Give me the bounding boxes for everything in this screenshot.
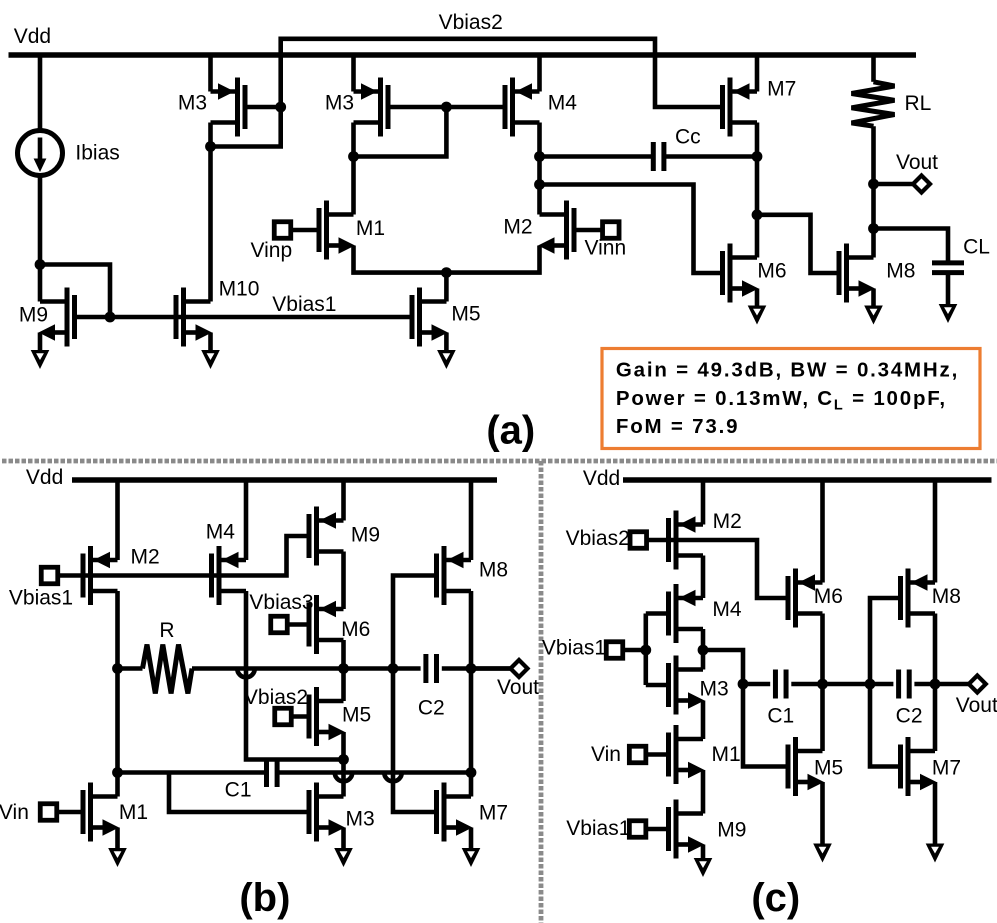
ground under M10 (201, 350, 220, 369)
ground under M3 (b) (334, 848, 353, 867)
wire: Vinp lead (291, 228, 319, 233)
wire: M7 drain / M6 drain column (a) (755, 123, 760, 258)
svg-text:M3: M3 (178, 92, 207, 115)
port Vbias1 (b) (41, 567, 58, 584)
transistor M5 (b) (309, 687, 345, 746)
transistor M4 (b) (212, 546, 247, 605)
svg-text:M4: M4 (548, 92, 577, 115)
transistor M6 (c) (788, 569, 823, 628)
capacitor C2 (c) (896, 670, 901, 699)
ground under CL (939, 304, 958, 323)
resistor R (b) (143, 645, 193, 694)
svg-text:M4: M4 (712, 598, 741, 621)
transistor M2 (c) (669, 511, 704, 570)
svg-text:Vbias1: Vbias1 (542, 637, 606, 660)
svg-text:M3: M3 (325, 92, 354, 115)
transistor M10 (a) (176, 288, 212, 347)
ground under M1 (b) (108, 848, 127, 867)
capacitor C2 (b) (423, 654, 428, 683)
transistor M8 (c) (901, 569, 936, 628)
svg-text:M8: M8 (886, 260, 915, 283)
svg-text:Vinn: Vinn (584, 236, 626, 259)
port Vinp (274, 222, 291, 239)
wire: C1 row (b) (118, 770, 472, 775)
svg-text:Ibias: Ibias (75, 141, 119, 164)
wire: Vinn lead (574, 228, 603, 233)
port Vinn (603, 222, 620, 239)
wire: M2 drain / M1 drain column (b) (115, 591, 120, 797)
transistor M9 (c) (669, 800, 705, 859)
svg-text:M7: M7 (479, 802, 508, 825)
port Vin (b) (40, 804, 57, 821)
svg-text:Vdd: Vdd (583, 467, 620, 490)
svg-text:M5: M5 (342, 704, 371, 727)
transistor M7 (b) (437, 783, 473, 842)
wire: Vbias1 net and M4/M3 gates (c) (623, 614, 669, 686)
transistor M4 (c) (669, 584, 704, 643)
transistor M7 (a) (723, 78, 758, 137)
ground under M9 (c) (694, 858, 713, 877)
svg-text:Vdd: Vdd (26, 466, 63, 489)
transistor M3 second (a) (354, 78, 389, 137)
wire: Vdd rail (b) (72, 477, 497, 483)
svg-text:Vbias1: Vbias1 (272, 293, 336, 316)
wire: Vdd rail (c) (623, 477, 992, 483)
svg-text:M1: M1 (119, 801, 148, 824)
wire: CL branch (874, 229, 949, 305)
wire: M8 and M7 gate net (b) (393, 576, 437, 813)
wire: M4 drain to M5 source node (b) (246, 591, 344, 760)
wire: M3 diode loop / M10 drain column (a) (211, 107, 281, 302)
svg-text:R: R (159, 619, 174, 642)
svg-text:Vbias2: Vbias2 (244, 686, 308, 709)
svg-text:C2: C2 (418, 697, 445, 720)
wire: M6 drain / M5 drain column (b) (341, 640, 346, 701)
svg-text:(a): (a) (486, 409, 535, 453)
svg-text:M1: M1 (356, 217, 385, 240)
svg-text:Vbias3: Vbias3 (249, 591, 313, 614)
svg-text:M5: M5 (814, 757, 843, 780)
transistor M3 (b) (309, 783, 345, 842)
wire: ground stubs (b) (118, 828, 472, 849)
transistor M5 (a) (412, 288, 448, 347)
ground under M5 (c) (813, 844, 832, 863)
wire: M9 drain to M6 source (b) (341, 552, 346, 610)
wire: M5 source to ground (444, 333, 449, 351)
svg-text:M7: M7 (767, 78, 796, 101)
port Vout (b) (511, 660, 528, 677)
wire: M3/M1 drain column and mirror gate row (a) (354, 107, 506, 215)
svg-text:Vbias2: Vbias2 (566, 527, 630, 550)
port Vbias2 (b) (292, 714, 310, 719)
junction dots (b) (112, 663, 476, 778)
transistor M8 (a) (839, 244, 875, 303)
wire: C row (c) (743, 682, 969, 687)
svg-text:C1: C1 (767, 705, 794, 728)
port Vbias3 (b) (288, 622, 310, 627)
transistor M6 (a) (723, 244, 759, 303)
svg-text:M6: M6 (814, 585, 843, 608)
wire: Vdd drops (c) (703, 480, 935, 583)
svg-text:FoM = 73.9: FoM = 73.9 (616, 415, 739, 438)
svg-text:M2: M2 (503, 216, 532, 239)
ground under M9 (a) (31, 350, 50, 369)
svg-text:Power = 0.13mW, CL = 100pF,: Power = 0.13mW, CL = 100pF, (616, 387, 947, 414)
svg-text:(c): (c) (751, 876, 800, 920)
svg-text:M6: M6 (341, 618, 370, 641)
capacitor C1 (c) (773, 670, 778, 699)
wire: M10 source to ground (208, 333, 213, 351)
wire: M4/M2 drain column (a) (537, 123, 542, 215)
svg-text:M9: M9 (717, 818, 746, 841)
wire: Cc row (a) (540, 154, 758, 159)
svg-text:M8: M8 (932, 585, 961, 608)
transistor M3 (c) (669, 656, 705, 715)
svg-text:Vbias2: Vbias2 (439, 11, 503, 34)
svg-text:Cc: Cc (675, 125, 701, 148)
svg-text:C1: C1 (225, 779, 252, 802)
svg-text:Vout: Vout (497, 676, 539, 699)
svg-text:M5: M5 (451, 303, 480, 326)
svg-text:(b): (b) (239, 876, 290, 920)
separator: horizontal dotted line (2, 459, 997, 464)
capacitor CL (932, 260, 964, 265)
svg-text:Vbias1: Vbias1 (9, 587, 73, 610)
wire: M8 drain / M7 drain column (c) (933, 614, 938, 752)
resistor RL (852, 82, 895, 126)
ground under M6 (a) (748, 306, 767, 325)
transistor M3 first (a) (211, 78, 246, 137)
transistor M9 (b) (309, 507, 344, 566)
wire: Vin lead (b) (57, 810, 83, 815)
wire: M2 drain to M4 source (c) (701, 556, 706, 599)
svg-text:M2: M2 (131, 546, 160, 569)
wire: M5 source to ground (c) (820, 782, 825, 844)
ground under M7 (c) (926, 844, 945, 863)
transistor M6 (b) (309, 595, 344, 654)
transistor M7 (c) (901, 737, 937, 796)
svg-text:M10: M10 (219, 277, 260, 300)
wire: M5 gate net (c) (743, 684, 788, 767)
wire: Vdd rail (a) (9, 52, 917, 58)
svg-text:M3: M3 (346, 807, 375, 830)
wire: RL to Vout to M8 drain column (871, 126, 876, 257)
ground under M7 (b) (462, 848, 481, 867)
wire: Vout lead (b) (471, 666, 511, 671)
wire: M9 source to ground (c) (701, 845, 706, 859)
svg-text:M9: M9 (19, 304, 48, 327)
wire: M3 source to M1 drain (c) (701, 701, 706, 740)
transistor M1 (b) (83, 783, 119, 842)
wire: Vbias1 net (b) (58, 536, 309, 576)
transistor M5 (c) (788, 737, 824, 796)
wire: R row and output row (b) (118, 666, 512, 671)
port Vout (c) (969, 676, 986, 693)
transistor M1 (a) (319, 201, 355, 260)
port Vbias2 (c) (630, 532, 647, 549)
wire: Vbias2 net (c) (647, 540, 788, 598)
junction dots (c) (640, 645, 940, 690)
wire hop: M4 drain over R row (237, 669, 255, 678)
port Vout (a) (913, 176, 930, 193)
svg-text:M3: M3 (700, 677, 729, 700)
svg-text:M2: M2 (713, 510, 742, 533)
transistor M1 (c) (669, 725, 705, 784)
capacitor C1 (b) (264, 758, 269, 787)
svg-text:Vout: Vout (956, 694, 997, 717)
transistor M4 (a) (505, 78, 540, 137)
ground under M8 (a) (864, 306, 883, 325)
wire: M6 drain / M5 drain column (c) (820, 614, 825, 752)
wire: M1 source to M9 drain (c) (701, 770, 706, 814)
transistor M2 (b) (83, 546, 118, 605)
svg-text:M1: M1 (712, 743, 741, 766)
port Vbias1 lower (c) (629, 821, 646, 838)
wire: M4/M3 drain node (c) (703, 629, 743, 684)
wire: M6 gate net (a) (540, 185, 723, 274)
svg-text:M7: M7 (932, 757, 961, 780)
wire: Vout lead (a) (874, 182, 914, 187)
svg-text:Vbias1: Vbias1 (566, 817, 630, 840)
svg-text:C2: C2 (896, 705, 923, 728)
port Vbias1 (c) (606, 642, 623, 659)
ground under M5 (a) (437, 350, 456, 369)
info box (performance summary) (602, 349, 980, 449)
svg-text:Vinp: Vinp (250, 239, 292, 262)
transistor M2 (a) (538, 201, 574, 260)
svg-text:Vin: Vin (591, 743, 621, 766)
wire: Vdd drops (b) (118, 480, 472, 560)
wire hop: C1 row over M5/M3 column (335, 773, 353, 782)
wire: Ibias to M9 drain and gate loop (40, 176, 110, 318)
svg-text:M4: M4 (206, 520, 235, 543)
svg-text:Vout: Vout (896, 151, 938, 174)
wire: M5 source / M3 drain column (b) (341, 732, 346, 797)
wire: M8 / M7 gate net (c) (870, 598, 901, 767)
wire hop: C1 row over M8/M7 gate column (384, 773, 402, 782)
svg-text:CL: CL (963, 235, 990, 258)
wire: M8 source to ground (871, 289, 876, 306)
transistor M9 (a) (39, 288, 75, 347)
junction dots (a) (35, 102, 879, 323)
svg-text:M6: M6 (757, 260, 786, 283)
wire: Vdd drops to M3 M3 M4 M7 Ibias RL (a) (40, 55, 874, 131)
svg-text:Vin: Vin (0, 801, 29, 824)
wire: Vbias2 net (a) (281, 39, 723, 107)
current source Ibias (18, 131, 63, 176)
wire: M6 source to ground (755, 289, 760, 306)
svg-text:RL: RL (904, 92, 931, 115)
wire: Vbias1 row (a) (75, 315, 413, 320)
transistor M8 (b) (437, 546, 472, 605)
separator: vertical dotted line (539, 461, 544, 923)
svg-text:Vdd: Vdd (14, 25, 51, 48)
svg-text:M9: M9 (351, 524, 380, 547)
svg-text:M8: M8 (479, 559, 508, 582)
svg-text:Gain = 49.3dB, BW = 0.34MHz,: Gain = 49.3dB, BW = 0.34MHz, (616, 359, 959, 382)
wire: M7 source to ground (c) (933, 782, 938, 844)
wire: Vin lead (c) (646, 752, 668, 757)
capacitor Cc (651, 142, 656, 171)
wire: M3 gate jog (b) (169, 773, 309, 813)
wire: Vbias1 lower lead (c) (646, 827, 668, 832)
wire: M8 gate net (a) (757, 215, 839, 273)
wire: M9 source to ground (38, 333, 43, 351)
wire: differential pair tail (a) (354, 246, 540, 302)
wire: M8 drain / Vout / M7 drain column (b) (469, 591, 474, 797)
port Vin (c) (629, 746, 646, 763)
